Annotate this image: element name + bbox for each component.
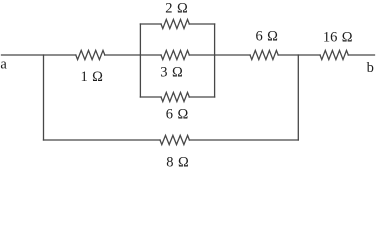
svg-text:6 Ω: 6 Ω: [166, 107, 189, 123]
wire: bottom branch left segment: [44, 139, 161, 141]
node B: junction dropping to bottom branch: [297, 55, 299, 140]
svg-text:16 Ω: 16 Ω: [323, 30, 353, 46]
resistor R7 8 ohm: [160, 135, 189, 144]
resistor R2 2 ohm: [161, 19, 189, 28]
resistor R4 6 ohm (box bottom): [161, 92, 189, 101]
wire: box right rail to R5: [215, 54, 250, 56]
wire: bottom branch of box left lead: [140, 96, 161, 98]
wire: top branch right lead: [189, 23, 214, 25]
wire: bottom branch right segment: [189, 139, 298, 141]
svg-text:3 Ω: 3 Ω: [160, 65, 183, 81]
resistor R1 1 ohm: [76, 50, 105, 59]
wire: main left from terminal a to R1: [2, 54, 76, 56]
wire: R6 to terminal b: [348, 54, 374, 56]
resistor R3 3 ohm: [161, 50, 189, 59]
svg-text:2 Ω: 2 Ω: [165, 1, 188, 17]
svg-text:8 Ω: 8 Ω: [166, 155, 189, 171]
resistor R6 16 ohm: [320, 50, 348, 59]
svg-text:b: b: [367, 60, 374, 76]
node A: junction dropping to bottom branch: [43, 55, 45, 140]
svg-text:a: a: [0, 57, 7, 73]
svg-text:6 Ω: 6 Ω: [255, 29, 278, 45]
wire: R5 to R6 with junction: [278, 54, 320, 56]
wire: top branch left lead: [140, 23, 161, 25]
wire: middle branch right lead: [189, 54, 214, 56]
wire: box left rail: [139, 24, 141, 97]
resistor R5 6 ohm (series): [250, 50, 278, 59]
wire: bottom branch of box right lead: [189, 96, 214, 98]
wire: R1 to parallel box left rail: [105, 54, 141, 56]
svg-text:1 Ω: 1 Ω: [80, 69, 103, 85]
wire: box right rail: [214, 24, 216, 97]
wire: middle branch left lead: [140, 54, 161, 56]
